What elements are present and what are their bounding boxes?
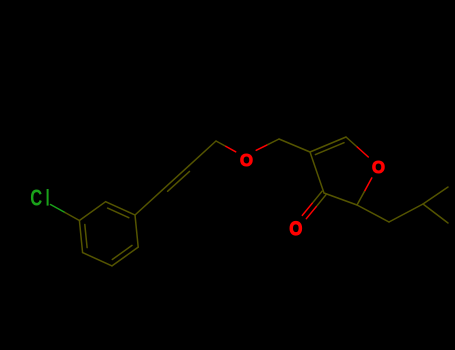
bond CH2-Oether olive half [216,141,226,146]
furanone double bond C4f=C5f twin [315,143,344,155]
benzene inner double line bottom [112,245,132,259]
bond Cl-C1 olive half [65,213,79,221]
chain double bond CH=CH main [162,166,189,191]
benzene ring edge C2top-ipso [106,202,135,215]
svg-text:C: C [30,186,42,211]
benzene ring edge C1-C2top [79,202,105,221]
benzene ring edge ipso-C6 [135,215,138,247]
chain double bond CH=CH twin [168,171,190,191]
benzene inner double line left [85,225,87,248]
bond Oether-CH2b olive half [268,139,279,145]
bond O1-C2f red half [364,178,371,192]
bond Oether-CH2b red half [256,145,267,151]
benzene inner double line top [108,208,129,218]
bond O1-C2f olive half [357,192,364,206]
chain bond CH-CH2 [189,141,216,166]
benzene ring edge C6-C5 [112,247,138,266]
carbonyl C3f=O lineB red half [302,203,312,215]
bond CH2c-CHd [389,204,423,222]
chain bond ipso-CH [135,190,162,215]
bond CH2-Oether red half [226,146,236,151]
bond C3f-C4f [310,152,324,193]
bond CH2b-C4f [279,139,310,152]
carbonyl C3f=O lineA olive half [316,195,326,207]
bond C2f-CH2c [357,205,389,222]
bond C5f-O1 red half [357,147,368,157]
furanone double bond C4f=C5f main [310,137,346,152]
svg-text:O: O [289,218,302,239]
bond CHd-CH3 lower [423,204,448,223]
carbonyl C3f=O lineB olive half [312,191,322,203]
bond CHd-CH3 upper [423,187,448,204]
benzene ring edge C5-C4 [83,253,112,266]
bond C2f-C3f [324,193,357,205]
carbonyl C3f=O lineA red half [306,207,316,219]
atom label Cl stem of l [47,189,49,206]
svg-text:O: O [240,150,253,169]
bond C5f-O1 olive half [346,137,357,147]
benzene ring edge C4-C1 [79,221,82,253]
bond Cl-C1 green half [51,205,66,213]
svg-text:O: O [372,157,385,176]
